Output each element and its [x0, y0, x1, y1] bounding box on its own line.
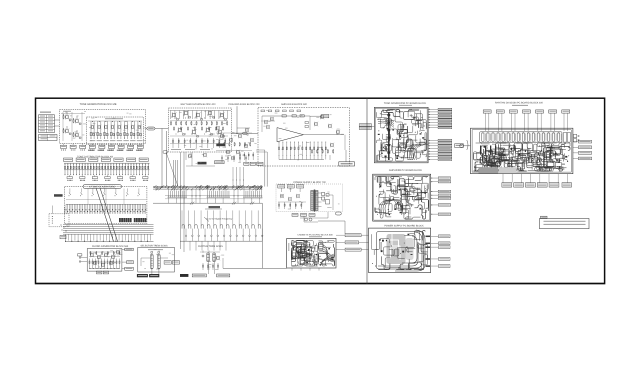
svg-text:TONE GENERATOR BLOCK MB: TONE GENERATOR BLOCK MB [80, 103, 117, 106]
svg-text:RHYTHM DIVISION BLOCK 400: RHYTHM DIVISION BLOCK 400 [181, 103, 216, 106]
svg-text:POWER SUPPLY BLOCK 700: POWER SUPPLY BLOCK 700 [293, 181, 326, 184]
svg-text:AMPLIFIER BLOCK 500: AMPLIFIER BLOCK 500 [281, 103, 308, 106]
svg-text:PREAMPLIFIER BLOCK 200: PREAMPLIFIER BLOCK 200 [229, 103, 261, 106]
svg-text:POWER SUPPLY PC BOARD BLOCK: POWER SUPPLY PC BOARD BLOCK [384, 224, 424, 227]
svg-text:SELECTOR TREM SCWS: SELECTOR TREM SCWS [141, 245, 168, 248]
svg-text:8 TONE GENERATORS: 8 TONE GENERATORS [89, 186, 115, 189]
svg-text:CHORD GENERATOR BLOCK 560: CHORD GENERATOR BLOCK 560 [92, 245, 129, 248]
svg-text:TONE GENERATOR PC BOARD BLOCK: TONE GENERATOR PC BOARD BLOCK [384, 102, 427, 105]
svg-text:RHYTHM DIVISION PC BOARD BLOC: RHYTHM DIVISION PC BOARD BLOCK 400 [495, 102, 544, 105]
svg-text:C1 to G2 Signal Frequency: C1 to G2 Signal Frequency [206, 218, 233, 221]
svg-text:AMPLIFIER PC BOARD BLOCK: AMPLIFIER PC BOARD BLOCK [389, 169, 423, 172]
svg-text:CABINETS PC BOARD BLOCK 800: CABINETS PC BOARD BLOCK 800 [297, 233, 333, 236]
